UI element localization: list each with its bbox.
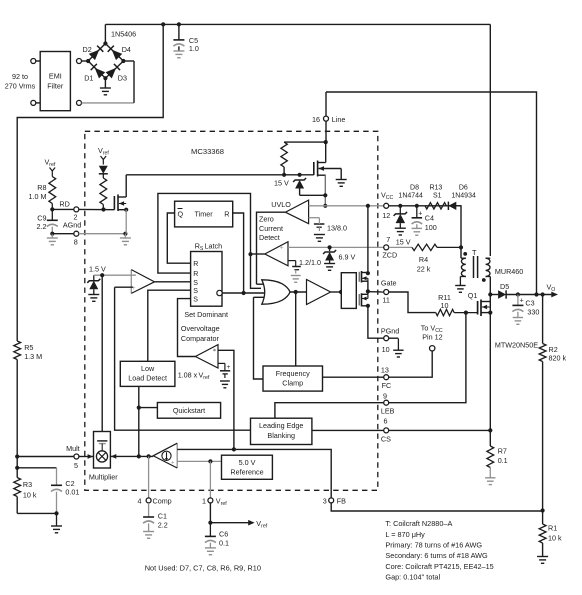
capacitor C3 xyxy=(512,295,523,318)
node line internal junction xyxy=(324,140,328,144)
wire pin16 down xyxy=(325,121,327,142)
wire RD to FET gate xyxy=(79,208,115,210)
label 1.08 x Vref xyxy=(178,371,210,382)
wire R3 bottom xyxy=(17,512,56,514)
wire OR output to buffer xyxy=(290,291,307,293)
svg-text:Secondary: 6 turns of #18 AWG: Secondary: 6 turns of #18 AWG xyxy=(385,551,488,560)
wire top rectified DC rail xyxy=(105,23,490,25)
label Low Load Detect xyxy=(128,364,167,383)
svg-text:4: 4 xyxy=(138,497,142,506)
pin 4 Comp xyxy=(146,498,151,503)
svg-text:C3: C3 xyxy=(525,298,534,307)
node source to Vcc wire xyxy=(323,204,327,208)
label latch S input 2 xyxy=(193,288,198,295)
resistor R2 xyxy=(539,295,546,511)
node C3 junction xyxy=(516,292,520,296)
node latch Q output bubble xyxy=(217,290,222,295)
svg-text:MC33368: MC33368 xyxy=(191,147,224,156)
wire bridge diamond xyxy=(88,44,123,79)
label MTW20N50E xyxy=(495,340,538,349)
svg-text:16: 16 xyxy=(312,115,320,124)
label ZCD xyxy=(382,250,397,259)
wire Vcc to driver xyxy=(367,206,369,273)
svg-text:Quickstart: Quickstart xyxy=(173,406,205,415)
ground AGnd xyxy=(120,234,131,245)
node Vref arrow junction xyxy=(208,521,212,525)
wire primary to drain node xyxy=(489,277,491,295)
svg-text:100: 100 xyxy=(425,223,437,232)
label PGnd xyxy=(381,327,399,336)
arrow into multiplier xyxy=(111,454,116,459)
svg-text:R: R xyxy=(224,210,229,219)
diode D4 xyxy=(108,46,123,61)
label 9 xyxy=(383,392,387,401)
wire timer R to latch Q line xyxy=(233,213,244,293)
transistor Q1 xyxy=(478,300,491,317)
ground R3 C2 xyxy=(51,513,62,532)
label FC xyxy=(382,381,392,390)
label Q1 xyxy=(468,291,478,300)
node C4 junction xyxy=(415,204,419,208)
marker error amp plus xyxy=(171,461,175,467)
wire Q1 to CS xyxy=(489,295,491,431)
terminal EMI output top xyxy=(77,59,82,64)
wire OV plus input from FB line xyxy=(218,350,234,449)
label Not Used xyxy=(145,564,261,573)
svg-text:+: + xyxy=(418,211,422,218)
label Quickstart xyxy=(173,406,205,415)
resistor R3 xyxy=(14,478,21,514)
diode D2 xyxy=(89,46,104,61)
label T xyxy=(472,248,477,257)
svg-text:D2: D2 xyxy=(83,45,92,54)
multiplier circle symbol xyxy=(96,451,107,462)
svg-text:1.08 x: 1.08 x xyxy=(178,371,198,380)
gate OR xyxy=(262,280,290,304)
block 5.0 V Reference xyxy=(222,455,273,479)
svg-text:Current: Current xyxy=(259,224,283,233)
label R13 S1 xyxy=(429,184,442,199)
label Frequency Clamp xyxy=(276,369,310,388)
svg-text:11: 11 xyxy=(382,296,389,305)
node rail output junction xyxy=(534,292,538,296)
label R11 10 xyxy=(438,293,451,310)
node driver upper drain xyxy=(366,271,370,275)
svg-text:1N5406: 1N5406 xyxy=(111,30,136,39)
svg-text:Multiplier: Multiplier xyxy=(89,473,118,482)
wire latch Q to OR gate xyxy=(222,292,267,294)
wire pin16 stub xyxy=(325,92,327,116)
label 10 xyxy=(382,345,390,354)
net Vref internal xyxy=(98,146,109,165)
node latch Q junction xyxy=(242,291,246,295)
diode D6 xyxy=(448,202,456,210)
label D1 xyxy=(84,74,93,83)
wire freq clamp left xyxy=(254,297,264,379)
resistor internal Vref xyxy=(100,178,107,210)
transistor driver upper FET xyxy=(359,271,368,292)
label 11 xyxy=(382,296,389,305)
wire driver source to PGnd xyxy=(368,306,384,338)
svg-text:92 to: 92 to xyxy=(12,72,28,81)
node bridge top xyxy=(103,41,107,45)
label 92 to 270 Vrms xyxy=(5,72,36,91)
node driver output xyxy=(366,289,370,293)
node quickstart junction xyxy=(137,406,141,410)
zener 6.9V xyxy=(323,247,336,263)
svg-text:22 k: 22 k xyxy=(417,264,431,273)
pin 12 Vcc xyxy=(384,203,389,208)
wire startup gate rail xyxy=(126,174,314,176)
label 5.0 V Reference xyxy=(230,458,263,477)
capacitor C6 xyxy=(205,523,216,548)
op-amp UVLO comparator xyxy=(285,200,308,224)
net Vref left terminal xyxy=(45,158,56,177)
wire PGnd to ground xyxy=(389,337,399,339)
wire ZCD minus stub xyxy=(288,260,296,262)
label Vcc xyxy=(381,191,394,202)
svg-text:Latch: Latch xyxy=(205,242,223,251)
svg-text:9: 9 xyxy=(383,392,387,401)
pin 7 ZCD xyxy=(384,245,389,250)
label D4 xyxy=(122,45,131,54)
svg-text:R13: R13 xyxy=(429,184,442,191)
svg-text:Set Dominant: Set Dominant xyxy=(184,310,228,319)
svg-text:1N4934: 1N4934 xyxy=(451,192,476,199)
ground PGnd xyxy=(393,338,403,357)
pin 9 LEB xyxy=(384,400,389,405)
svg-text:10: 10 xyxy=(441,301,449,310)
wire Vcc to D6 xyxy=(389,205,461,207)
transistor internal FET1 xyxy=(114,175,126,211)
wire secondary to ground xyxy=(459,277,461,286)
marker ZCD plus xyxy=(280,245,284,252)
ground startup FET bulk xyxy=(336,169,347,187)
pin 8 AGnd xyxy=(74,231,79,236)
wire ZCD junction down to OR xyxy=(251,254,262,288)
node comp pin junction xyxy=(147,454,151,458)
ground ZCD reference xyxy=(291,276,301,283)
ground C5 xyxy=(173,51,184,58)
IC MC33368 dashed boundary xyxy=(85,131,378,490)
svg-text:15 V: 15 V xyxy=(274,179,289,188)
resistor startup xyxy=(281,142,326,175)
label latch S input 1 xyxy=(193,280,198,287)
wire driver output to gate pin xyxy=(368,291,384,293)
svg-text:+: + xyxy=(520,297,524,304)
battery 1.2/1.0 reference xyxy=(292,261,301,274)
node junction top rail to divider xyxy=(161,22,165,26)
label Leading Edge Blanking xyxy=(259,421,303,440)
label C4 plus xyxy=(418,211,422,218)
label D5 xyxy=(500,282,509,291)
label 3 xyxy=(323,497,327,506)
label D3 xyxy=(118,74,127,83)
block gate driver xyxy=(341,273,356,309)
svg-text:MTW20N50E: MTW20N50E xyxy=(495,340,538,349)
node FET1 source xyxy=(124,208,128,212)
ground C3 xyxy=(513,318,523,325)
label C3 330 xyxy=(525,298,539,316)
svg-text:3: 3 xyxy=(323,497,327,506)
resistor R5 xyxy=(14,341,21,457)
resistor R4 xyxy=(389,244,461,250)
block Frequency Clamp xyxy=(263,366,323,391)
svg-text:1.3 M: 1.3 M xyxy=(24,352,42,361)
label Multiplier xyxy=(89,473,118,482)
svg-text:MUR460: MUR460 xyxy=(495,267,523,276)
svg-text:R7: R7 xyxy=(498,447,507,456)
node R8 RD junction xyxy=(50,207,54,211)
block Low Load Detect xyxy=(120,361,175,386)
svg-text:UVLO: UVLO xyxy=(271,200,291,209)
wire 1.5V rail to multiplier xyxy=(101,275,103,431)
label 16 xyxy=(312,115,320,124)
svg-text:1: 1 xyxy=(202,497,206,506)
label 13/8.0 xyxy=(327,224,347,233)
wire mult xyxy=(17,456,74,458)
svg-text:Gate: Gate xyxy=(381,278,397,287)
node Vref chain junction xyxy=(101,207,105,211)
svg-text:Reference: Reference xyxy=(230,468,263,477)
svg-text:5: 5 xyxy=(74,461,78,470)
wire UVLO output xyxy=(257,212,286,284)
label To Vcc Pin 12 xyxy=(421,324,443,342)
svg-text:D3: D3 xyxy=(118,74,127,83)
multiplier internal cap xyxy=(97,441,107,451)
diode internal Vref xyxy=(99,166,108,178)
resistor R1 xyxy=(539,511,546,557)
ground R7 xyxy=(485,478,495,485)
svg-text:13/8.0: 13/8.0 xyxy=(327,224,347,233)
label C5 1.0 xyxy=(189,36,199,53)
label latch S input 3 xyxy=(193,297,198,304)
node OR output junction xyxy=(294,290,298,294)
wire bridge right node down xyxy=(133,61,135,103)
label 12 xyxy=(382,211,390,220)
node driver lower source xyxy=(366,304,370,308)
op-amp error amplifier xyxy=(153,443,177,468)
wire error amp output to multiplier xyxy=(110,455,153,457)
svg-text:10 k: 10 k xyxy=(548,534,562,543)
svg-text:Q: Q xyxy=(178,210,184,219)
diode D3 xyxy=(106,64,121,79)
label 1N5406 xyxy=(111,30,136,39)
svg-text:15 V: 15 V xyxy=(396,237,411,246)
svg-text:S1: S1 xyxy=(433,192,442,199)
ground 6.9V zener xyxy=(324,264,335,271)
label MC33368 xyxy=(191,147,224,156)
label LEB xyxy=(381,407,395,416)
label R3 10k xyxy=(23,480,37,500)
terminal To Vcc Pin 12 xyxy=(430,346,435,351)
svg-text:Timer: Timer xyxy=(195,210,214,219)
svg-text:Leading Edge: Leading Edge xyxy=(259,421,303,430)
wire Vref pin down xyxy=(209,503,211,523)
node ZCD output junction xyxy=(248,252,252,256)
wire LEB right to CS pin xyxy=(312,429,384,431)
svg-text:RD: RD xyxy=(59,199,69,208)
block RS Latch xyxy=(191,252,222,307)
wire to quickstart xyxy=(139,407,158,409)
ground R1 xyxy=(537,557,548,564)
svg-text:S: S xyxy=(193,297,198,304)
terminal AC input bottom xyxy=(31,100,36,105)
inductor T primary xyxy=(486,258,491,276)
svg-text:R4: R4 xyxy=(419,255,428,264)
capacitor C9 xyxy=(47,209,58,233)
svg-text:Frequency: Frequency xyxy=(276,369,310,378)
svg-text:LEB: LEB xyxy=(381,407,395,416)
label 2 xyxy=(74,213,78,222)
label Vref arrow xyxy=(256,519,267,530)
svg-text:Clamp: Clamp xyxy=(282,379,303,388)
wire rail down to line-sense divider xyxy=(17,24,163,341)
svg-text:FC: FC xyxy=(382,381,392,390)
ground C9 xyxy=(47,234,58,245)
label 8 xyxy=(74,237,78,246)
label EMI Filter xyxy=(47,72,64,91)
svg-text:D4: D4 xyxy=(122,45,131,54)
svg-text:13: 13 xyxy=(381,365,389,374)
wire bridge right vertex to corner xyxy=(123,60,134,62)
svg-text:T: Coilcraft N2880–A: T: Coilcraft N2880–A xyxy=(385,519,452,528)
svg-text:Pin 12: Pin 12 xyxy=(422,333,442,342)
node bridge left xyxy=(86,59,90,63)
svg-text:6.9 V: 6.9 V xyxy=(339,253,356,262)
wire rail down to transformer xyxy=(489,24,491,256)
svg-text:1.0 M: 1.0 M xyxy=(29,192,47,201)
svg-text:820 k: 820 k xyxy=(549,354,567,363)
svg-text:C6: C6 xyxy=(219,529,228,538)
svg-text:Line: Line xyxy=(332,115,346,124)
svg-text:Mult: Mult xyxy=(66,444,80,453)
wire 1.5V to comparator minus xyxy=(94,275,136,281)
buffer driver triangle xyxy=(307,280,331,305)
svg-text:7: 7 xyxy=(386,235,390,244)
svg-text:Comparator: Comparator xyxy=(181,334,220,343)
terminal AC input top xyxy=(31,59,36,64)
svg-text:Core: Coilcraft PT4215, EE42–1: Core: Coilcraft PT4215, EE42–15 xyxy=(385,562,493,571)
op-amp 1.5V comparator xyxy=(131,270,154,294)
wire ZCD to secondary xyxy=(460,247,462,258)
wire OR output to frequency clamp xyxy=(295,292,297,366)
node Q1 drain node xyxy=(488,292,492,296)
svg-text:D8: D8 xyxy=(410,184,419,191)
svg-text:R3: R3 xyxy=(23,480,32,489)
svg-text:Load Detect: Load Detect xyxy=(128,374,167,383)
ground 1.08xVref xyxy=(220,381,230,388)
label Zero Current Detect xyxy=(259,215,283,243)
label D8 1N4744 xyxy=(398,184,423,199)
svg-text:Q1: Q1 xyxy=(468,291,478,300)
svg-text:S: S xyxy=(193,280,198,287)
wire mult to multiplier xyxy=(79,456,94,458)
label C9 2.2 xyxy=(37,213,47,231)
svg-text:1N4744: 1N4744 xyxy=(398,192,423,199)
wire LEB top to pin9 xyxy=(275,403,384,419)
svg-text:C1: C1 xyxy=(158,512,167,521)
svg-text:+: + xyxy=(171,461,175,467)
wire freq clamp to FC pin xyxy=(323,376,384,378)
wire AGnd left xyxy=(52,233,74,235)
op-amp overvoltage comparator xyxy=(195,345,218,368)
diode D5 xyxy=(498,290,506,298)
label Mult xyxy=(66,444,80,453)
wire line pin rail xyxy=(326,92,537,295)
label battery plus xyxy=(227,364,231,371)
EMI filter block xyxy=(40,52,70,111)
svg-text:270 Vrms: 270 Vrms xyxy=(5,82,36,91)
ground UVLO reference xyxy=(314,235,325,242)
label Vref pin xyxy=(216,497,227,508)
wire Vref arrow xyxy=(210,520,254,526)
wire zener to source xyxy=(300,194,326,196)
ground C4 xyxy=(412,228,422,235)
capacitor C4 xyxy=(412,206,423,229)
node R2 junction xyxy=(541,292,545,296)
wire ZCD output xyxy=(251,253,265,255)
wire gate pin to R11 xyxy=(389,292,436,313)
label C6 0.1 xyxy=(219,529,229,547)
svg-text:L = 870 μHy: L = 870 μHy xyxy=(385,530,425,539)
svg-text:Zero: Zero xyxy=(259,215,274,224)
label latch R input 2 xyxy=(193,271,198,278)
node R3 C2 junction xyxy=(15,466,19,470)
wire FB down to divider xyxy=(331,503,543,511)
wire AC top terminal to EMI xyxy=(36,60,40,62)
wire OR input1 from UVLO xyxy=(257,283,268,285)
label R2 820k xyxy=(549,345,567,363)
svg-text:R: R xyxy=(193,271,198,278)
wire latch S2 xyxy=(148,290,191,361)
node startup resistor to gate rail xyxy=(282,173,286,177)
svg-text:R1: R1 xyxy=(548,523,557,532)
capacitor C2 xyxy=(51,468,62,514)
svg-text:Filter: Filter xyxy=(47,82,64,91)
resistor R13 xyxy=(425,203,446,209)
wire comp pin down xyxy=(148,456,150,498)
svg-text:Blanking: Blanking xyxy=(267,431,295,440)
label 1.5 V xyxy=(89,264,106,273)
label UVLO xyxy=(271,200,291,209)
svg-text:T: T xyxy=(472,248,477,257)
node bridge bottom xyxy=(103,76,107,80)
marker OV minus xyxy=(213,349,216,352)
label D2 xyxy=(83,45,92,54)
svg-text:CS: CS xyxy=(381,435,391,444)
ground 1.5V zener xyxy=(88,295,99,302)
node CS R7 junction xyxy=(488,428,492,432)
svg-text:C9: C9 xyxy=(37,213,46,222)
svg-text:1.5 V: 1.5 V xyxy=(89,264,106,273)
label 1.2/1.0 xyxy=(299,258,321,267)
label C4 100 xyxy=(425,214,437,233)
wire FET1 source to AGnd xyxy=(125,210,127,234)
svg-text:PGnd: PGnd xyxy=(381,327,399,336)
svg-text:330: 330 xyxy=(527,308,539,317)
op-amp ZCD comparator xyxy=(265,242,288,266)
label latch R input 1 xyxy=(193,261,198,268)
wire D5 anode xyxy=(490,294,498,296)
node Vcc driver junction xyxy=(366,204,370,208)
svg-text:5.0 V: 5.0 V xyxy=(239,458,256,467)
node Q1 source node xyxy=(488,311,492,315)
svg-text:AGnd: AGnd xyxy=(63,220,81,229)
node OV comparator junction xyxy=(232,447,236,451)
node 1.5V rail junction xyxy=(100,273,104,277)
wire Vref pin up xyxy=(209,461,211,497)
